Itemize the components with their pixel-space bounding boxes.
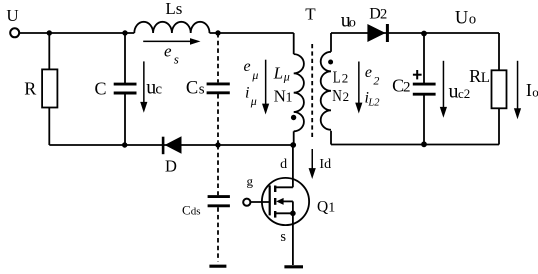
svg-text:g: g	[247, 174, 254, 189]
svg-text:u: u	[449, 81, 459, 103]
svg-text:c: c	[155, 82, 162, 98]
svg-text:D: D	[165, 156, 177, 175]
svg-text:s: s	[280, 229, 286, 245]
svg-text:o: o	[532, 84, 538, 99]
svg-text:L: L	[481, 70, 490, 86]
svg-text:1: 1	[286, 91, 293, 106]
svg-text:μ: μ	[251, 68, 258, 82]
svg-text:2: 2	[343, 89, 350, 104]
svg-text:L: L	[273, 63, 283, 82]
svg-text:μ: μ	[283, 70, 290, 84]
svg-text:T: T	[305, 4, 316, 23]
svg-text:2: 2	[380, 6, 387, 22]
svg-text:C: C	[186, 79, 198, 99]
svg-text:e: e	[244, 58, 251, 75]
svg-text:2: 2	[342, 71, 349, 86]
svg-text:e: e	[164, 41, 172, 60]
svg-text:U: U	[455, 9, 468, 29]
svg-text:o: o	[469, 12, 476, 28]
svg-text:C: C	[182, 202, 191, 217]
svg-text:i: i	[245, 85, 249, 102]
svg-text:μ: μ	[250, 94, 257, 108]
svg-text:e: e	[365, 64, 372, 81]
svg-text:N: N	[332, 86, 342, 105]
svg-text:s: s	[199, 82, 205, 98]
svg-text:d: d	[324, 157, 331, 172]
svg-text:L: L	[333, 67, 341, 86]
svg-text:c2: c2	[458, 86, 470, 101]
svg-text:R: R	[469, 66, 481, 86]
svg-text:I: I	[526, 80, 532, 100]
svg-text:1: 1	[328, 200, 335, 215]
svg-text:2: 2	[403, 79, 411, 95]
svg-text:Ls: Ls	[165, 0, 182, 18]
svg-text:U: U	[6, 6, 18, 25]
svg-text:ds: ds	[191, 206, 201, 218]
svg-text:N: N	[274, 86, 286, 105]
svg-text:s: s	[174, 51, 179, 66]
svg-text:R: R	[24, 79, 36, 99]
svg-text:L2: L2	[367, 98, 380, 109]
svg-text:o: o	[349, 16, 356, 31]
svg-text:2: 2	[373, 74, 379, 88]
svg-text:Q: Q	[317, 198, 328, 215]
svg-text:d: d	[280, 157, 287, 172]
svg-text:C: C	[94, 79, 106, 99]
